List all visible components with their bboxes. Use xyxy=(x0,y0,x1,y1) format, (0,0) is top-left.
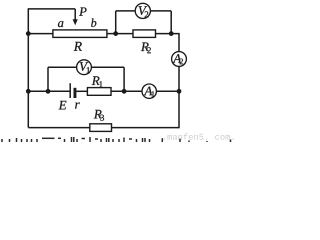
wire bottom rail left xyxy=(28,127,90,129)
wire V2 branch left vertical xyxy=(115,11,117,34)
wire V2 branch right vertical xyxy=(170,11,172,34)
resistor R3 xyxy=(90,124,112,132)
node junction V1-right xyxy=(122,89,127,94)
wire slider-loop top xyxy=(28,8,75,10)
resistor R2 xyxy=(133,30,156,38)
wire rail between R and R2 xyxy=(107,33,133,35)
label R (rheostat) xyxy=(74,42,82,51)
label P (slider) xyxy=(79,8,86,16)
wire battery row left xyxy=(28,90,70,92)
label R2 xyxy=(141,42,151,53)
label E (battery emf) xyxy=(59,101,67,110)
wire slider drop to P xyxy=(74,9,76,20)
wire V1 loop top xyxy=(48,66,124,68)
node junction rail V2-left xyxy=(113,31,118,36)
slider arrow head P xyxy=(73,19,78,25)
node junction V1-left xyxy=(46,89,51,94)
label a (rheostat left terminal) xyxy=(58,21,63,27)
wire rail right of R2 xyxy=(156,33,180,35)
wire bottom rail right xyxy=(112,127,180,129)
node junction battery-row right xyxy=(177,89,182,94)
label r (internal resistance) xyxy=(75,102,80,108)
ammeter A1 xyxy=(142,84,156,98)
wire battery to R1 xyxy=(76,90,87,92)
wire right vertical xyxy=(178,34,180,128)
battery E short thick plate xyxy=(74,88,77,98)
battery E long plate xyxy=(69,83,71,98)
wire V1 loop right vertical xyxy=(123,67,125,91)
wire left vertical xyxy=(27,9,29,128)
label R3 xyxy=(94,110,104,121)
watermark manfen5.com xyxy=(164,133,234,139)
wire A1 to right vertical xyxy=(156,90,179,92)
wire V2 branch top xyxy=(116,10,172,12)
voltmeter V1 xyxy=(77,60,92,75)
resistor R1 xyxy=(87,88,111,96)
cropped caption glyph tops xyxy=(1,139,3,142)
voltmeter V2 xyxy=(135,3,150,18)
label R1 xyxy=(92,76,103,87)
node junction rail V2-right xyxy=(169,31,174,36)
wire main rail left xyxy=(28,33,53,35)
node junction battery-row left xyxy=(26,89,31,94)
ammeter A2 xyxy=(172,52,187,67)
wire R1 to A1 xyxy=(111,90,142,92)
node junction rail left xyxy=(26,31,31,36)
wire V1 loop left vertical xyxy=(47,67,49,91)
resistor R rheostat body xyxy=(53,30,107,38)
label b (rheostat right terminal) xyxy=(91,18,96,26)
